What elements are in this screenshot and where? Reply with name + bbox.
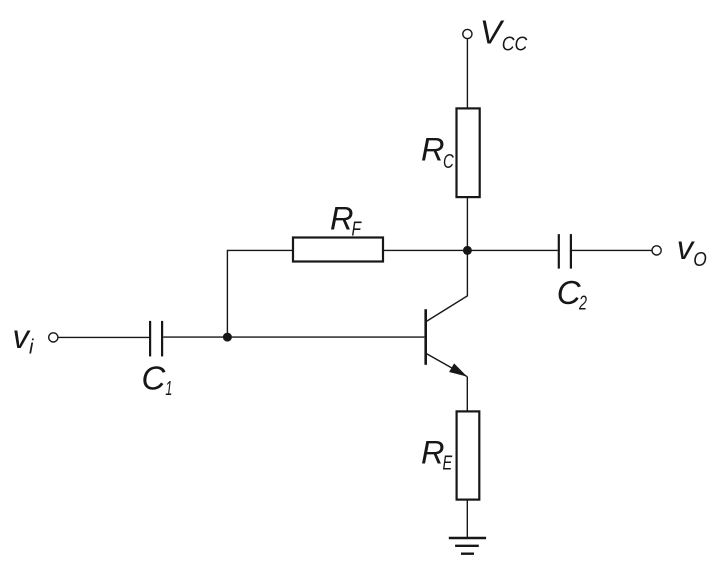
transistor Q1 emitter with arrow [426, 354, 467, 377]
node collector junction [463, 246, 472, 255]
svg-text:VCC: VCC [480, 13, 528, 55]
svg-text:C1: C1 [142, 359, 173, 400]
wire emitter to RE [466, 377, 468, 412]
wire RC to node [466, 197, 468, 250]
capacitor C1 [150, 321, 162, 357]
wire C1 to base [163, 336, 424, 338]
resistor RC [457, 108, 480, 197]
wire vi to C1 [58, 336, 149, 338]
terminal VCC [463, 29, 472, 38]
svg-text:RE: RE [421, 435, 453, 475]
svg-text:RC: RC [421, 131, 454, 173]
terminal vi [49, 333, 58, 342]
wire node to collector [426, 250, 467, 321]
transistor Q1 base bar [424, 309, 427, 365]
terminal vo [652, 246, 661, 255]
svg-text:vO: vO [677, 229, 707, 271]
wire VCC to RC [466, 39, 468, 109]
wire C2 to vo [572, 249, 652, 251]
node input junction [223, 333, 232, 342]
svg-text:C2: C2 [557, 274, 587, 315]
capacitor C2 [559, 234, 571, 269]
wire RE to ground [466, 500, 468, 538]
svg-text:RF: RF [330, 201, 362, 241]
ground [449, 538, 486, 554]
wire feedback corner to RF [227, 250, 293, 337]
resistor RE [457, 411, 480, 499]
resistor RF [293, 238, 383, 262]
wire RF to C2 [383, 249, 558, 251]
svg-text:vi: vi [13, 318, 35, 359]
